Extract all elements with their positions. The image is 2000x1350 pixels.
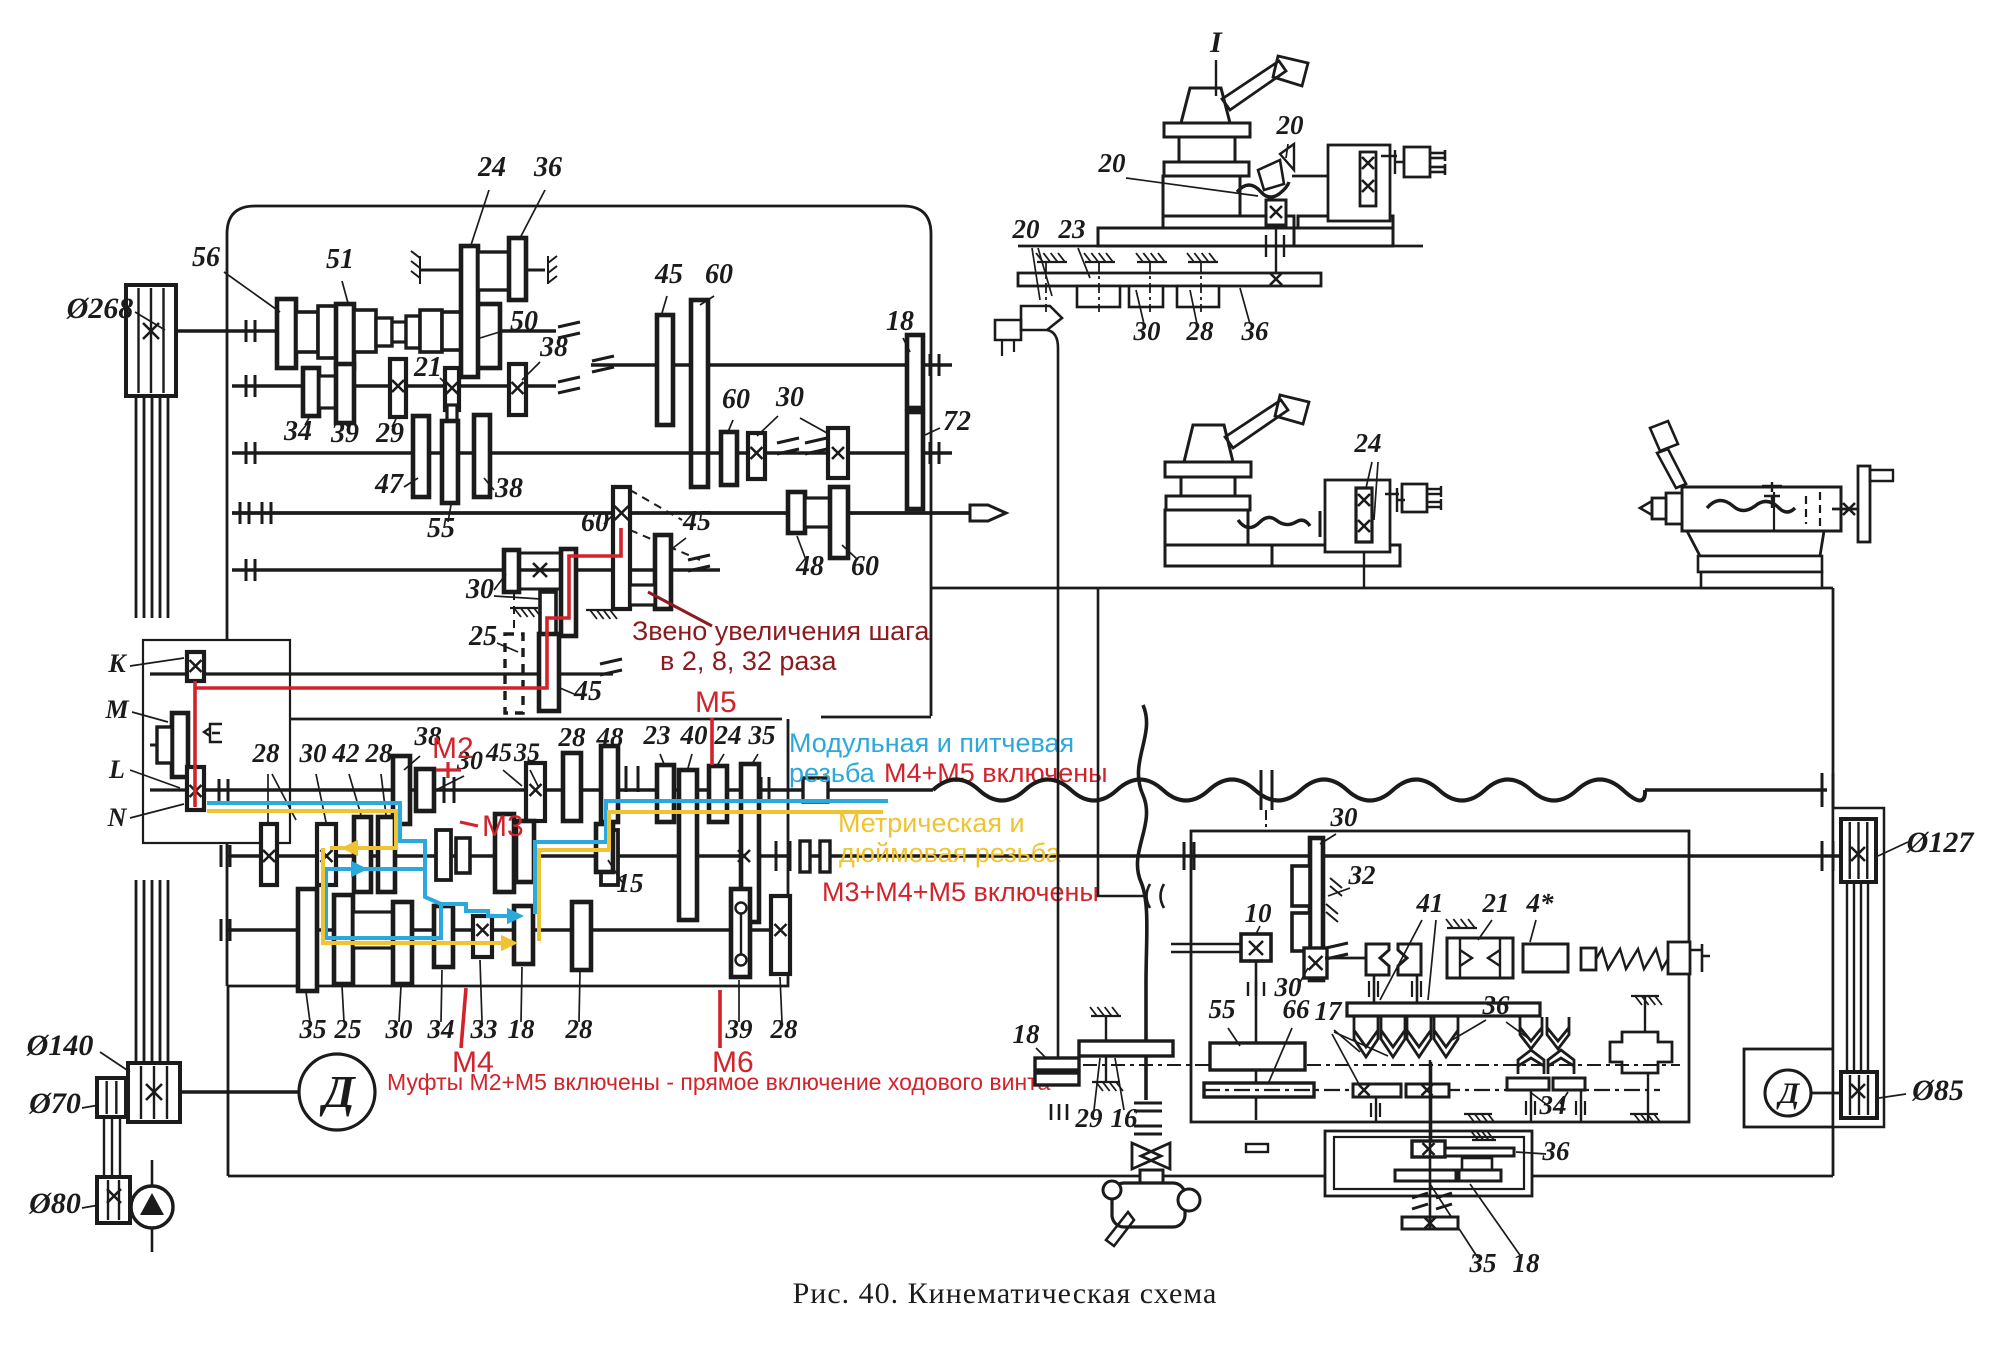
svg-text:дюймовая резьба: дюймовая резьба xyxy=(839,838,1062,868)
svg-text:17: 17 xyxy=(1315,996,1344,1026)
dashed shift arrow a xyxy=(630,490,682,520)
bevel inverted a xyxy=(1518,1050,1544,1074)
svg-text:15: 15 xyxy=(617,868,644,898)
gear 45 lower xyxy=(540,592,556,634)
svg-text:Метрическая и: Метрическая и xyxy=(838,808,1025,838)
svg-text:42: 42 xyxy=(332,738,360,768)
bars 34 a xyxy=(1507,1078,1549,1090)
hatch below 29-16 xyxy=(1092,1081,1120,1083)
svg-text:28: 28 xyxy=(252,738,281,768)
hatch marks by 32 xyxy=(1326,878,1342,922)
hatch under slider xyxy=(510,607,538,609)
svg-text:29: 29 xyxy=(1075,1103,1104,1133)
carriage right slab xyxy=(1294,228,1393,246)
bevel gear group d xyxy=(1434,1017,1458,1057)
shaft from pulley D268 into headstock xyxy=(176,329,232,332)
gear 21 xyxy=(445,368,459,410)
cross screw line xyxy=(1292,175,1328,178)
shaft II-right (reverse shaft) xyxy=(591,363,952,366)
svg-text:K: K xyxy=(107,649,127,678)
svg-text:28: 28 xyxy=(365,738,394,768)
cyan path modular thread xyxy=(207,803,516,916)
support to bed xyxy=(1363,552,1365,588)
gear pair 18 left of apron xyxy=(1035,1058,1079,1070)
svg-text:Рис. 40. Кинематическая схе: Рис. 40. Кинематическая схема xyxy=(793,1277,1218,1310)
svg-text:35: 35 xyxy=(299,1014,327,1044)
gear 28 shaft3 xyxy=(572,902,591,970)
rack tooth block a xyxy=(1077,286,1120,307)
svg-text:I: I xyxy=(1209,26,1223,59)
svg-text:21: 21 xyxy=(1482,888,1510,918)
svg-text:Ø127: Ø127 xyxy=(1906,826,1975,859)
feed shaft 2 (intermediate) xyxy=(227,854,788,857)
gear 36 xyxy=(509,238,526,300)
svg-text:Модульная и питчевая: Модульная и питчевая xyxy=(789,728,1074,758)
svg-text:41: 41 xyxy=(1416,888,1444,918)
toolpost flange xyxy=(1164,123,1250,137)
tailstock body xyxy=(1682,487,1841,531)
saddle vertical shaft xyxy=(1429,1060,1432,1218)
svg-text:66: 66 xyxy=(1283,994,1311,1024)
svg-text:20: 20 xyxy=(1276,110,1305,140)
svg-text:36: 36 xyxy=(1482,990,1511,1020)
feed gearbox housing xyxy=(227,717,931,986)
svg-text:Ø85: Ø85 xyxy=(1911,1074,1964,1107)
yellow path metric thread xyxy=(207,811,396,848)
svg-text:28: 28 xyxy=(1186,316,1215,346)
lathe bed line xyxy=(931,587,1833,590)
rack axis dashdot d xyxy=(1200,262,1202,312)
shaft VI inside headstock xyxy=(600,659,622,664)
gear 15 xyxy=(596,824,613,872)
gear 28b on shaft2 xyxy=(378,817,395,892)
tailstock handwheel xyxy=(1858,466,1870,542)
gear 50 hub xyxy=(442,312,464,350)
saddle sub-box outer xyxy=(1325,1131,1532,1196)
wavy vertical shaft to apron xyxy=(1137,705,1146,1100)
shaft N stub xyxy=(150,788,187,791)
feed rod coupling xyxy=(800,841,810,872)
svg-text:28: 28 xyxy=(770,1014,799,1044)
pulley D70 xyxy=(97,1078,126,1117)
gear 25 dashed (disengaged) xyxy=(505,634,523,713)
svg-text:25: 25 xyxy=(334,1014,362,1044)
toolpost body xyxy=(1163,176,1240,216)
toolpost II knob xyxy=(1184,425,1233,462)
svg-text:30: 30 xyxy=(1133,316,1162,346)
apron shaft horizontal xyxy=(1325,957,1366,960)
tailstock quill b xyxy=(1652,498,1666,519)
motor box right xyxy=(1744,1049,1833,1127)
spindle nose arrow xyxy=(970,505,1006,521)
tailstock screw nut xyxy=(1762,482,1782,508)
svg-text:47: 47 xyxy=(374,469,404,500)
gear 36 hub xyxy=(478,252,509,290)
svg-text:55: 55 xyxy=(1209,994,1236,1024)
svg-text:N: N xyxy=(107,803,128,832)
svg-text:36: 36 xyxy=(1241,316,1270,346)
feed rod ticks at apron xyxy=(1183,842,1186,870)
gear 30 on shaft2 xyxy=(317,824,336,885)
toolpost II collar xyxy=(1166,496,1250,510)
toolpost handle xyxy=(1222,61,1286,110)
toolpost II handle xyxy=(1225,400,1288,448)
svg-text:24: 24 xyxy=(1354,428,1382,458)
svg-text:60: 60 xyxy=(851,551,879,582)
tailstock quill lines xyxy=(1773,492,1775,530)
x-bar clutch b xyxy=(1406,1084,1449,1097)
gear 35 tall feed xyxy=(741,764,759,922)
gear 60 spindle xyxy=(830,487,848,558)
gear 55 headstock xyxy=(442,421,458,503)
tailstock quill a xyxy=(1666,493,1682,524)
gear 40 xyxy=(679,770,697,920)
gear 21-55 hub xyxy=(447,405,457,423)
motor D left xyxy=(299,1054,375,1130)
bed rack strip xyxy=(1018,273,1321,286)
svg-text:в 2, 8, 32 раза: в 2, 8, 32 раза xyxy=(660,646,838,676)
pulley D85 xyxy=(1841,1072,1877,1118)
gear 39 xyxy=(731,889,750,977)
gear 56 xyxy=(277,299,296,368)
svg-text:30: 30 xyxy=(1330,802,1359,832)
verticals to saddle box xyxy=(1375,1097,1377,1121)
wedge upper 20 xyxy=(1280,144,1294,170)
bevel gear group c xyxy=(1407,1017,1431,1057)
saddle hub xyxy=(1462,1158,1492,1170)
clutch M5 ticks xyxy=(625,766,628,792)
bevel clutch left xyxy=(1366,944,1389,975)
gear 28 feed top xyxy=(563,753,581,821)
red path direct leadscrew drive xyxy=(195,528,621,807)
tailstock dashes xyxy=(1805,496,1807,524)
svg-text:55: 55 xyxy=(427,513,455,544)
gear 34 hub xyxy=(319,376,336,408)
gear M xyxy=(172,713,188,777)
shaft I of headstock xyxy=(232,329,556,332)
svg-text:33: 33 xyxy=(470,1014,498,1044)
svg-text:М4+М5 включены: М4+М5 включены xyxy=(884,758,1108,788)
oil pump xyxy=(131,1186,173,1228)
gear 48 spindle xyxy=(788,492,805,533)
rack hatches xyxy=(1037,261,1067,263)
gear 51 xyxy=(336,304,354,368)
leadscrew straight end xyxy=(1645,788,1827,792)
gear 50 xyxy=(464,304,500,368)
universal joint ticks xyxy=(1134,1102,1162,1105)
svg-text:Звено увеличения шага: Звено увеличения шага xyxy=(632,616,930,646)
cone step d xyxy=(376,318,392,346)
feed shaft 1 xyxy=(204,788,933,791)
bevel gear right a xyxy=(1520,1017,1542,1049)
svg-text:38: 38 xyxy=(539,332,568,363)
vertical shaft of gear 10 xyxy=(1255,961,1258,1120)
svg-text:39: 39 xyxy=(330,418,359,449)
gear 45 feed top xyxy=(526,763,545,821)
tailstock base xyxy=(1687,531,1824,556)
svg-text:28: 28 xyxy=(558,722,587,752)
gear small M3 b xyxy=(456,838,470,873)
rack axis dashdot c xyxy=(1149,262,1151,312)
element 4* xyxy=(1523,944,1568,972)
pulley D127 xyxy=(1841,819,1876,882)
apron gearbox housing xyxy=(1191,831,1689,1122)
svg-text:60: 60 xyxy=(722,384,750,415)
svg-text:Д: Д xyxy=(319,1066,356,1117)
belt from pulley D268 to D140 xyxy=(135,396,138,618)
end mark III under 10 xyxy=(1248,982,1264,996)
bevel gear right b xyxy=(1547,1017,1569,1049)
gear small M3 a xyxy=(436,830,451,880)
hatch above 29-16 xyxy=(1091,1015,1121,1017)
saddle gear 18 xyxy=(1459,1170,1501,1181)
svg-text:40: 40 xyxy=(680,720,709,750)
clutch M2 ticks xyxy=(443,777,446,803)
cone step f xyxy=(406,316,420,348)
svg-text:45: 45 xyxy=(573,676,602,707)
K-M-L-N input block housing xyxy=(143,640,290,843)
hub on shaft V xyxy=(630,585,655,605)
leadscrew coupling xyxy=(803,778,828,802)
svg-text:30: 30 xyxy=(465,574,494,605)
saddle gear 35 xyxy=(1395,1170,1456,1181)
tailstock clamp lever xyxy=(1657,449,1686,488)
feed rod bearing ticks right xyxy=(1821,841,1824,871)
gear bar 24 II xyxy=(1356,488,1372,542)
svg-text:48: 48 xyxy=(596,722,625,752)
clutch ticks shaft2 right xyxy=(775,841,778,871)
gear X on shaft III right xyxy=(828,428,848,478)
gear 33 xyxy=(473,916,492,957)
gear column 30-32 xyxy=(1310,838,1323,980)
svg-text:56: 56 xyxy=(192,242,220,273)
tailstock screw shaft xyxy=(1832,508,1858,511)
svg-text:29: 29 xyxy=(375,418,404,449)
hatch on apron floor a xyxy=(1464,1113,1492,1115)
gear bar 29-16 xyxy=(1079,1041,1173,1056)
leadscrew wavy line xyxy=(933,780,1645,801)
shaft pulley D140 to motor xyxy=(180,1090,300,1094)
vertical shafts through bar 41 xyxy=(1373,975,1376,1003)
vertical shaft from latch to gear 18 pair xyxy=(1047,330,1058,1058)
gear 29 xyxy=(390,359,406,417)
apron dashed axis xyxy=(1204,1089,1660,1091)
fixed stub shaft for 24-36 xyxy=(420,269,545,272)
claw block xyxy=(1610,1032,1672,1073)
svg-text:L: L xyxy=(108,755,125,784)
tailstock screw wavy xyxy=(1707,500,1795,512)
bevel gear 17 group b xyxy=(1381,1017,1405,1057)
headstock housing (rounded box) xyxy=(227,206,931,719)
long gear bar 41 xyxy=(1347,1003,1540,1016)
machine outer casing box xyxy=(227,986,230,1176)
toolpost II slab xyxy=(1272,545,1400,566)
svg-text:23: 23 xyxy=(643,720,671,750)
svg-text:36: 36 xyxy=(1542,1136,1571,1166)
tailstock center tip xyxy=(1640,501,1652,515)
gear 30 shaft3 xyxy=(393,902,412,984)
svg-text:Муфты М2+М5 включены - прямое: Муфты М2+М5 включены - прямое включение … xyxy=(387,1069,1050,1095)
hub a shaft3 xyxy=(353,912,393,948)
svg-text:20: 20 xyxy=(1012,214,1041,244)
svg-text:30: 30 xyxy=(299,738,328,768)
svg-text:Д: Д xyxy=(1776,1077,1801,1110)
saddle bar 36 xyxy=(1445,1148,1514,1156)
cone step a xyxy=(296,312,318,352)
gear 45 shaft2 xyxy=(495,814,514,892)
svg-text:Ø80: Ø80 xyxy=(28,1187,81,1220)
svg-text:М3: М3 xyxy=(482,810,524,843)
gear 24 feed xyxy=(709,766,727,822)
toolpost knob xyxy=(1181,88,1230,123)
rack tooth block b xyxy=(1129,286,1163,307)
gear 35 shaft3 xyxy=(298,889,317,991)
svg-text:23: 23 xyxy=(1058,214,1086,244)
svg-text:51: 51 xyxy=(326,244,354,275)
svg-text:25: 25 xyxy=(468,621,497,652)
gear 45 reverse xyxy=(657,315,673,425)
belt pulley box right xyxy=(1833,808,1884,1127)
stub hatch right xyxy=(548,256,557,284)
gear 60 pitch-link xyxy=(613,487,630,609)
carriage line xyxy=(1018,245,1423,248)
bracket T II xyxy=(1385,488,1405,512)
rack tooth block c xyxy=(1177,286,1219,307)
rack axis dashdot b xyxy=(1098,262,1100,312)
svg-text:Ø268: Ø268 xyxy=(66,292,134,325)
handle plug xyxy=(1404,147,1430,177)
pulley D80 xyxy=(97,1177,130,1223)
svg-text:18: 18 xyxy=(1013,1019,1041,1049)
toolpost II base xyxy=(1165,545,1272,566)
gear 30 right xyxy=(748,433,765,479)
bevel joint xyxy=(1132,1143,1161,1169)
gear 35 shaft2 xyxy=(516,821,534,882)
stub hatch left xyxy=(411,251,420,284)
svg-text:Ø140: Ø140 xyxy=(26,1029,94,1062)
spring detent xyxy=(204,724,222,742)
gear 47 xyxy=(413,416,429,497)
gear 10 with shaft xyxy=(1171,943,1241,946)
feed shaft 3 xyxy=(227,928,788,931)
belt D70 to D80 xyxy=(103,1117,105,1177)
hatch under spring xyxy=(1631,995,1659,997)
gear 66 bar xyxy=(1204,1083,1314,1097)
svg-text:18: 18 xyxy=(1513,1248,1541,1278)
gear 38 feed xyxy=(393,756,410,824)
cross screw bar xyxy=(1360,152,1376,206)
svg-text:М2: М2 xyxy=(432,732,474,765)
saddle sub-box inner xyxy=(1334,1137,1524,1189)
gear 23 xyxy=(657,765,674,822)
gear 38 on shaft III xyxy=(474,415,490,497)
gear 18 top right xyxy=(907,335,923,408)
gear 18 shaft3 xyxy=(514,906,533,964)
svg-text:20: 20 xyxy=(1098,148,1127,178)
gear 60 small xyxy=(721,432,737,485)
handwheel with crank xyxy=(1140,1170,1163,1185)
svg-text:34: 34 xyxy=(1539,1090,1567,1120)
coupling ticks on shaft1 xyxy=(760,777,763,803)
X mark shaft2 xyxy=(738,850,750,862)
break marks on horizontal link xyxy=(1147,884,1165,908)
pulley D268 xyxy=(126,285,176,396)
cross slide block xyxy=(1328,145,1390,221)
svg-text:35: 35 xyxy=(513,738,540,767)
belt D127-D85 xyxy=(1846,882,1848,1072)
gear N xyxy=(187,767,204,810)
gear 72 xyxy=(907,412,923,509)
foot of shaft 10 xyxy=(1246,1144,1268,1152)
tick at carriage line xyxy=(1265,235,1267,257)
toolpost II body xyxy=(1165,510,1248,545)
x-bar clutch a xyxy=(1353,1084,1401,1097)
shaft IV spindle xyxy=(232,511,970,515)
svg-text:24: 24 xyxy=(477,152,506,183)
cross screw II wavy xyxy=(1238,517,1310,527)
carriage top slab xyxy=(1163,216,1294,228)
hatch right of slider xyxy=(586,609,614,611)
gear 39 xyxy=(336,364,354,423)
saddle pinion X xyxy=(1412,1141,1445,1157)
svg-text:Ø70: Ø70 xyxy=(28,1087,81,1120)
gear K xyxy=(187,652,204,681)
carriage base slab xyxy=(1098,228,1294,246)
svg-text:30: 30 xyxy=(775,382,804,413)
gear 24 xyxy=(461,246,478,377)
svg-text:72: 72 xyxy=(943,406,971,437)
feed rod xyxy=(800,854,1845,857)
pulley D140 xyxy=(128,1063,180,1122)
gear 38 on shaft II xyxy=(509,364,526,415)
gear 45 pitch-link xyxy=(655,535,671,609)
worm spring xyxy=(1596,949,1668,969)
gear 48 lower half xyxy=(601,830,618,885)
rack latch xyxy=(995,320,1021,340)
cone step e xyxy=(392,322,406,342)
gear box 24 II xyxy=(1325,480,1390,552)
shaft II of headstock xyxy=(232,384,556,387)
vertical to rack pinion xyxy=(1266,200,1286,225)
svg-text:35: 35 xyxy=(748,720,776,750)
toolpost II flange xyxy=(1165,462,1251,477)
svg-text:35: 35 xyxy=(1469,1248,1497,1278)
sliding gear 30 block xyxy=(504,550,519,592)
svg-text:М5: М5 xyxy=(695,686,737,719)
gear 30 feed top xyxy=(416,769,434,811)
gear 48 feed xyxy=(601,746,618,822)
svg-text:21: 21 xyxy=(413,352,442,383)
bracket T right xyxy=(1381,150,1403,174)
gear 34 shaft3 xyxy=(434,906,453,967)
carriage right step xyxy=(1298,216,1393,228)
svg-text:резьба: резьба xyxy=(789,758,876,788)
cone step c xyxy=(354,310,376,352)
svg-text:32: 32 xyxy=(1348,860,1376,890)
shaft VI (K) line xyxy=(150,672,613,675)
gear 25 shaft3 xyxy=(334,895,353,984)
rack axis dashdot a xyxy=(1045,262,1047,312)
toolpost neck xyxy=(1179,137,1235,162)
cone step b xyxy=(318,306,338,358)
gear 34 xyxy=(303,368,319,416)
svg-text:50: 50 xyxy=(510,306,538,337)
bars 34 b xyxy=(1553,1078,1585,1090)
overload link on 39 xyxy=(736,903,747,914)
gear 28 right shaft3 xyxy=(771,896,790,974)
svg-text:36: 36 xyxy=(533,152,562,183)
bevel inverted b xyxy=(1548,1050,1574,1074)
